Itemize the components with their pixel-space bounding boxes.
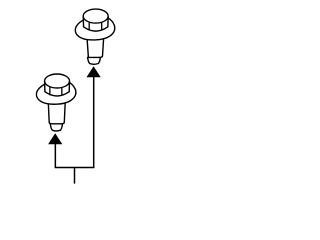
bolt B (upper right) head top face bbox=[83, 9, 108, 23]
bolt A (lower left) tip cup bbox=[50, 124, 62, 131]
arrow to bolt B bbox=[87, 66, 101, 77]
bolt A (lower left) hex facet lines bbox=[50, 87, 62, 95]
arrow to bolt A bbox=[48, 133, 62, 144]
bolt A (lower left) flange washer (conical) bbox=[36, 82, 76, 104]
bolt A (lower left) head top face bbox=[45, 74, 70, 88]
bolt B (upper right) shank bbox=[86, 24, 104, 57]
bolt B (upper right) tip cup bbox=[88, 57, 101, 64]
leader horizontal bracket bbox=[55, 167, 95, 169]
leader stem to callout (bottom) bbox=[74, 168, 76, 184]
leader line from bolt A arrow down bbox=[54, 144, 56, 168]
bolt B (upper right) flange washer (conical) bbox=[75, 18, 115, 40]
leader line from bolt B arrow down bbox=[93, 77, 95, 168]
bolt B (upper right) hex head body bbox=[83, 9, 108, 31]
bolt A (lower left) hex head body bbox=[45, 74, 70, 96]
bolt A (lower left) shank bbox=[48, 89, 66, 124]
bolt B (upper right) hex facet lines bbox=[89, 22, 102, 30]
